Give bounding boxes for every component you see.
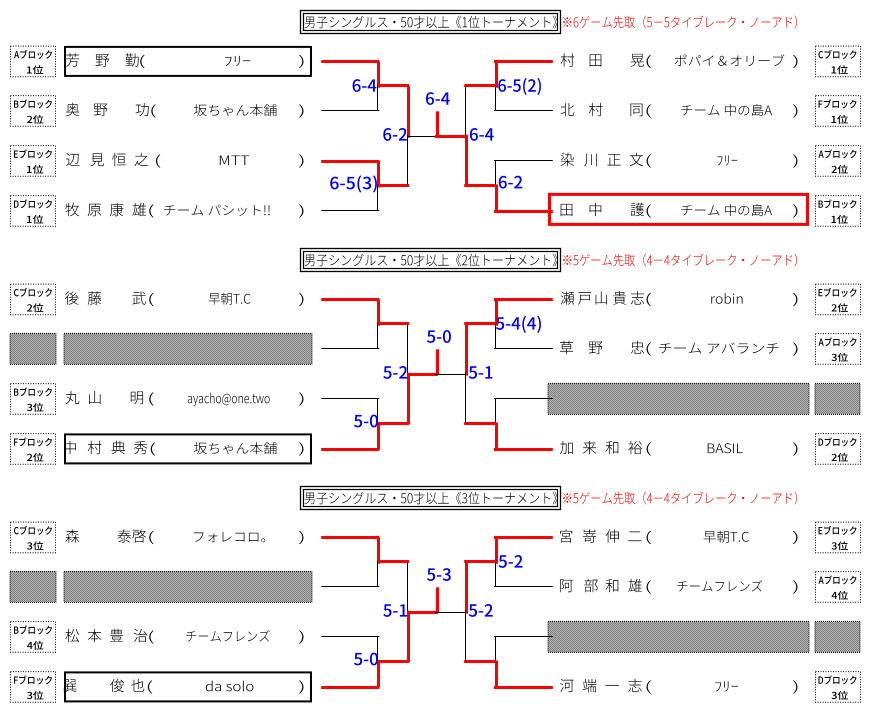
block label Dブロック3位 [816,672,861,703]
wire row R4 [494,686,553,689]
score Rp1 5-2 [499,555,523,568]
wire row L4 [321,448,379,451]
semi vertical L [407,324,408,375]
player 奥野功 [66,103,79,116]
player 松本豊治 [65,629,79,642]
player 草野忠 [560,341,573,354]
title text 3 [305,492,558,505]
semi vertical R [465,562,468,613]
wire row L4 [321,210,379,211]
wire row L1 [321,298,379,301]
winner line L1 [378,560,409,563]
player 辺見恒之 [66,153,79,166]
winner line L2 [378,660,409,663]
block label Aブロック4位 [816,572,861,603]
final line [408,373,438,376]
block label Bブロック2位 [11,96,56,127]
score champ 6-4 [426,92,450,105]
semi vertical R [465,86,466,137]
winner line R1 [464,322,495,325]
bye bar [10,333,56,364]
player 芳野勤 [66,53,79,66]
wire row R2 [494,110,553,111]
score Lp2 5-0 [354,415,378,428]
pair1 vertical L [377,538,380,564]
champion red box [550,194,808,224]
wire row R3 [494,636,553,637]
wire row R4 [494,448,553,451]
pair2 vertical R [495,161,496,188]
wire row L1 [321,60,379,63]
block label Bブロック1位 [816,196,861,227]
wire row R2 [494,348,553,349]
title box 3位トーナメント [301,487,561,510]
pair2 vertical R [495,637,496,664]
wire row R1 [494,298,553,301]
winner line R2 [464,660,495,663]
winner line L2 [378,422,409,425]
final line [408,611,438,614]
champion stub [436,587,439,612]
wire row L4 [321,686,379,689]
winner box [65,434,311,463]
block label Bブロック3位 [11,384,56,415]
wire row L1 [321,536,379,539]
bye bar [548,621,809,652]
pair1 vertical L [377,62,380,88]
block label Cブロック3位 [11,522,56,553]
wire row L2 [321,586,379,587]
wire row R1 [494,60,553,63]
score Rp1 6-5(2) [498,78,541,95]
bye bar [548,383,809,414]
score champ 5-0 [427,330,451,343]
pair2 vertical L [377,399,378,426]
score Ls 5-2 [383,366,407,379]
block label Eブロック2位 [816,284,861,315]
player 宮嵜伸二 [560,529,572,542]
score Rp1 5-4(4) [496,316,541,333]
pair1 vertical L [377,300,380,326]
player 中村典秀 [64,441,76,454]
player 田中護 [561,204,573,216]
player 森泰啓 [65,529,79,542]
wire row L3 [321,636,379,637]
score Rs 6-4 [470,128,494,141]
note 3 [563,492,797,505]
title box 2位トーナメント [301,249,561,272]
player 瀬戸山貴志 [561,291,575,304]
pair1 vertical R [495,62,498,88]
winner line R2 [464,184,495,187]
player 丸山明 [65,391,79,404]
block label Fブロック2位 [11,434,56,465]
semi vertical L [407,86,410,137]
player 後藤武 [65,291,79,304]
block label Aブロック2位 [816,146,861,177]
pair1 vertical R [495,538,498,564]
player 村田晃 [561,53,575,66]
wire row L3 [321,160,379,163]
note 2 [563,254,797,267]
score Ls 6-2 [383,128,407,141]
winner box [65,47,311,76]
block label Dブロック2位 [816,434,861,465]
player 河端一志 [560,679,574,692]
block label Aブロック3位 [816,334,861,365]
wire row L2 [321,110,379,111]
winner line R1 [464,84,495,87]
score Ls 5-1 [383,604,407,617]
winner line R2 [464,422,495,425]
wire row L2 [321,348,379,349]
block label Eブロック1位 [11,146,56,177]
score Rs 5-1 [469,366,493,379]
block label Fブロック1位 [816,96,861,127]
block label Aブロック1位 [11,46,56,77]
semi vertical R [465,324,468,375]
score Rs 5-2 [469,604,493,617]
block label Eブロック3位 [816,522,861,553]
wire row R2 [494,586,553,587]
score Lp1 6-4 [353,79,377,92]
champion stub [436,111,439,136]
wire row R3 [494,160,553,161]
wire row R1 [494,536,553,539]
player 染川正文 [561,153,575,166]
title text 2 [305,254,558,267]
winner line L2 [378,184,409,187]
player 北村同 [561,103,575,116]
pair2 vertical L [377,637,378,664]
winner line L1 [378,322,409,325]
block label Dブロック1位 [11,196,56,227]
title text 1 [305,16,558,29]
final line [408,136,438,137]
champion stub [436,349,439,374]
wire row L3 [321,398,379,399]
pair2 vertical R [495,399,496,426]
winner box [65,672,311,701]
pair2 vertical L [377,161,380,188]
player 巽俊也 [63,679,76,692]
winner line L1 [378,84,409,87]
player 阿部和雄 [560,579,573,592]
score champ 5-3 [427,568,451,581]
wire row R4 [494,210,553,213]
block label Cブロック2位 [11,284,56,315]
player 加来和裕 [560,441,573,454]
score Lp2 5-0 [354,653,378,666]
winner line R1 [464,560,495,563]
note 1 [563,16,797,29]
semi vertical L [407,562,408,613]
block label Bブロック4位 [11,622,56,653]
score Rp2 6-2 [499,176,523,189]
bye bar [10,571,56,602]
wire row R3 [494,398,553,399]
score Lp2 6-5(3) [330,175,377,192]
player 牧原康雄 [65,203,79,216]
block label Fブロック3位 [11,672,56,703]
block label Cブロック1位 [816,46,861,77]
pair1 vertical R [495,300,498,326]
title box 1位トーナメント [301,11,561,34]
